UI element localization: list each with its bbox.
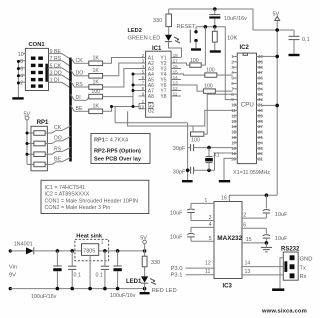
ground (reset switch) [191,48,201,50]
wire pin16 VCC to rail [221,195,277,201]
CON1 right pin stubs with labels [49,49,63,84]
wire R-BE to G-net [103,107,139,112]
wire pin13 Rx [242,269,283,275]
RS232 pin labels [300,256,313,280]
svg-text:100: 100 [206,68,215,74]
svg-text:19: 19 [139,105,145,110]
wires RP1 outputs to bus [52,125,71,164]
svg-text:11: 11 [173,92,178,97]
svg-text:RP1= 4.7KX4: RP1= 4.7KX4 [94,138,128,144]
connector RS232 3-pin header [281,247,300,281]
resistor RP1 element 1 [27,131,52,136]
node ties [132,73,135,76]
wire R100b to CPU pin5 [217,74,233,76]
wire pin14 Tx [242,261,283,267]
svg-text:9: 9 [142,92,145,97]
svg-text:14: 14 [173,75,179,80]
svg-text:6: 6 [142,75,145,80]
svg-text:15: 15 [173,70,179,75]
op-amp .. actually buffer IC1 74HCT541 [146,46,172,117]
svg-text:100uF/16v: 100uF/16v [31,294,57,300]
svg-text:5: 5 [142,70,145,75]
resistor network RP1 [31,120,49,171]
wire reset node to CPU RST pin9 [225,27,232,100]
svg-text:100: 100 [191,138,200,144]
node CON1 pin junction [17,82,20,85]
resistor RP1 element 3 [27,152,52,157]
svg-text:GREEN LED: GREEN LED [128,36,161,42]
capacitor 10uF (V-) [242,222,288,243]
IC1 G1 G2 enable labels [148,103,155,115]
wire R-DI to IC1 A4 [103,74,139,97]
wire Y2 to R100a [181,63,190,65]
svg-text:13: 13 [245,269,251,275]
resistor R100b 100 [205,68,217,78]
svg-text:5 CK: 5 CK [50,63,62,69]
svg-text:13: 13 [231,119,236,124]
driver IC3 MAX232 [214,202,243,290]
svg-text:www.sixca.com: www.sixca.com [261,308,307,314]
ground (RS232) [272,288,284,291]
svg-text:1K: 1K [93,104,100,110]
svg-text:2: 2 [243,212,246,218]
svg-text:4: 4 [209,222,212,228]
svg-text:1K: 1K [93,68,100,74]
svg-text:CPU: CPU [241,101,254,108]
svg-text:16: 16 [221,195,227,201]
svg-text:10: 10 [231,103,236,108]
svg-text:DO: DO [76,71,84,77]
wire harness bus (thick vertical) [69,58,72,162]
svg-text:3: 3 [209,215,212,221]
svg-text:1: 1 [101,239,104,245]
svg-text:CON1 = Male Shrouded Header 10: CON1 = Male Shrouded Header 10PIN [45,198,138,204]
regulator 7805 with heat sink [75,234,109,261]
svg-text:39: 39 [258,59,263,64]
ground (top right cap) [289,54,300,56]
svg-text:See PCB Over lay: See PCB Over lay [94,157,142,163]
wire pin2 [242,212,266,218]
svg-text:100: 100 [91,89,100,95]
LED LED2 green [165,35,180,43]
wire G-net long run to R100d [115,107,188,123]
capacitor 0.1 input [68,251,81,289]
wire feed to R100d [192,126,194,132]
capacitor 100uF/16v output [110,251,136,299]
svg-text:CK: CK [54,125,62,131]
resistor RP1 element 4 [27,162,52,167]
svg-text:100: 100 [204,84,213,90]
svg-text:330: 330 [153,18,162,24]
node pin40/rail [275,55,279,59]
svg-text:5V: 5V [273,12,280,18]
resistor RP1 element 2 [27,141,52,146]
ground (crystal caps) [182,180,193,182]
node pin31/rail [275,104,279,108]
svg-text:25: 25 [258,135,263,140]
svg-text:12: 12 [205,260,211,266]
svg-text:X1=11.059MHz: X1=11.059MHz [233,170,270,176]
wire 5V branch to reset/top [169,9,295,30]
svg-text:12: 12 [173,86,179,91]
svg-text:12: 12 [231,113,236,118]
node 5V/rail junction [275,28,279,32]
svg-text:18: 18 [173,53,179,58]
capacitor 10uF/16v (reset) [209,7,247,27]
capacitor 100uF/16v input [31,251,62,300]
wire diode to 7805 [35,250,82,252]
IC2 left pins 1-20 [231,54,237,162]
IC1 left pin stubs, numbers, A labels [139,53,155,110]
svg-text:IC1 = 74HCT541: IC1 = 74HCT541 [45,185,86,191]
svg-text:Heat sink: Heat sink [76,234,103,240]
resistor 10K (reset pulldown) [212,27,237,51]
svg-text:2: 2 [142,53,145,58]
svg-text:RS: RS [54,146,62,152]
wire G-net to pins 1,19 [138,104,140,109]
svg-text:20: 20 [231,157,236,162]
svg-text:15: 15 [231,130,236,135]
svg-text:RP2-RP5 (Option): RP2-RP5 (Option) [94,149,141,155]
svg-text:11: 11 [231,108,236,113]
svg-text:30pF: 30pF [173,169,186,175]
svg-text:33: 33 [258,92,263,97]
capacitor 10uF (pins 1-3) [170,198,214,221]
svg-text:3 DO: 3 DO [50,71,62,77]
svg-text:4: 4 [142,64,145,69]
svg-text:G2: G2 [148,109,155,115]
svg-text:36: 36 [258,76,263,81]
wire P3.0 to pin12 [171,260,215,272]
capacitor 0.1 output [96,251,110,289]
capacitor 30pF lower [173,167,194,176]
svg-text:MAX232: MAX232 [217,235,242,242]
svg-text:18: 18 [231,146,236,151]
resistor R-BE 1K [89,104,103,114]
wire bottom rail [10,288,144,290]
node pin15/cap [265,241,269,245]
svg-text:RS: RS [76,82,84,88]
capacitor 0.1 (top right decoupling) [289,30,310,54]
svg-text:1: 1 [142,99,145,104]
svg-text:CK: CK [76,58,84,64]
node bottom rail junctions [56,287,60,291]
svg-text:Rx: Rx [300,274,307,280]
svg-text:34: 34 [258,86,263,91]
svg-text:27: 27 [258,124,263,129]
svg-text:P3.1: P3.1 [171,273,183,279]
svg-text:24: 24 [258,140,263,145]
svg-text:RP1: RP1 [37,120,49,126]
svg-text:2: 2 [20,81,23,87]
svg-text:IC2 = AT89SXXXX: IC2 = AT89SXXXX [45,192,90,198]
svg-text:7805: 7805 [83,248,95,254]
wire 30pF common to ground [187,123,189,180]
microcontroller IC2 AT89S CPU [237,45,256,164]
capacitor 10uF (V+ to VCC) [263,195,288,218]
svg-text:330: 330 [151,260,160,266]
svg-text:BE: BE [76,106,83,112]
wire 5V rail vertical [276,30,278,195]
power 5V output [140,236,147,257]
node output caps [103,249,107,253]
wire CON1 ground bus [17,61,19,97]
svg-text:26: 26 [258,130,263,135]
wire input rail [10,250,26,252]
svg-text:15: 15 [246,237,252,243]
svg-text:0.1: 0.1 [96,272,104,278]
svg-text:10uF: 10uF [275,212,288,218]
svg-text:1 DI: 1 DI [50,78,60,84]
svg-text:10uF: 10uF [170,235,183,241]
resistor R-DO 1K [89,68,103,78]
resistor R-CK 1K [89,56,103,66]
svg-text:P3.0: P3.0 [171,266,183,272]
ground (CPU pin20) [219,180,230,182]
resistor R-RS 1K [89,79,103,89]
svg-text:14: 14 [245,261,251,267]
ground (MAX232) IEC style [261,243,272,252]
wire G-net vertical ties [132,74,134,107]
svg-text:Y8: Y8 [160,94,166,100]
svg-text:DO: DO [54,136,62,142]
connector CON1 10-pin shrouded header [25,42,48,91]
wire R-RS to IC1 A3 [103,69,139,88]
wires bus to series resistors with net labels [71,57,89,112]
CON1 polarizing key bar [45,64,48,82]
svg-text:16: 16 [231,135,236,140]
svg-text:5: 5 [209,236,212,242]
crystal X1 [205,148,220,171]
svg-text:LED1: LED1 [126,279,142,285]
svg-text:30pF: 30pF [173,146,186,152]
node CON1 pin junction [17,74,20,77]
svg-text:3: 3 [142,59,145,64]
wire R100d to CPU pin8 [204,94,233,134]
callout notes box [41,180,149,213]
svg-text:X1: X1 [213,152,220,158]
svg-text:8: 8 [142,86,145,91]
node input caps [56,249,60,253]
CON1 contact pads [31,57,43,88]
svg-text:11: 11 [205,269,210,275]
svg-text:38: 38 [258,65,263,70]
terminal Vin- [9,287,12,290]
svg-text:IC3: IC3 [223,284,233,290]
capacitor 10uF (pins 4-5) [170,222,214,242]
capacitor 30pF upper [173,144,194,152]
node reset net junctions [204,25,208,29]
wire CPU pin31 EA to rail [262,104,277,106]
resistor R100a 100 (reset drive) [190,58,201,68]
node CON1 pin junction [17,60,20,63]
svg-text:22: 22 [258,151,263,156]
svg-text:CON1: CON1 [29,42,46,48]
wire P3.1 to pin11 [171,269,215,279]
IC2 right pins 40-21 [257,54,264,162]
wire R-CK to IC1 A1 [103,58,139,64]
wire CPU pin40 VCC to rail [262,55,277,57]
IC1 right pin stubs, numbers, Y labels [160,53,181,100]
svg-text:BE: BE [54,157,61,163]
svg-text:29: 29 [258,113,263,118]
svg-text:6: 6 [243,222,246,228]
svg-text:16: 16 [173,64,179,69]
ground (CON1) [12,97,23,99]
wire output rail [99,250,145,252]
svg-text:IC2: IC2 [240,45,250,51]
node xtal top [207,146,211,150]
svg-text:8: 8 [20,59,23,65]
resistor 330 (red LED) [142,256,160,276]
wire CPU pin20 GND [224,158,232,180]
svg-text:10uF/16v: 10uF/16v [224,16,247,22]
svg-text:100: 100 [190,58,199,64]
resistor R-DI 100 [89,89,103,99]
svg-text:28: 28 [258,119,263,124]
wire R100a to reset node [201,27,205,65]
node CON1 pin junction [17,67,20,70]
RS232 contact pads [290,255,295,278]
svg-text:GND: GND [300,256,313,262]
terminal Vin+ [9,249,12,252]
diode 1N4001 [14,242,34,255]
node pin16/cap junction [265,193,269,197]
svg-text:32: 32 [258,97,263,102]
svg-text:37: 37 [258,70,263,75]
svg-text:1K: 1K [93,56,100,62]
svg-text:0.1: 0.1 [74,272,82,278]
ground (10K) [210,50,221,52]
svg-text:35: 35 [258,81,263,86]
svg-text:30: 30 [258,108,263,113]
node xtal bottom [207,169,211,173]
svg-text:10: 10 [18,52,24,58]
svg-text:13: 13 [173,81,179,86]
RS232 key bar [284,261,287,272]
svg-text:19: 19 [231,151,236,156]
svg-text:14: 14 [231,124,236,129]
svg-text:LED2: LED2 [128,28,142,34]
svg-text:100uF/16v: 100uF/16v [110,293,136,299]
svg-text:Tx: Tx [300,266,307,272]
svg-text:0.1: 0.1 [302,37,310,43]
svg-text:7: 7 [142,81,145,86]
svg-text:RED LED: RED LED [152,288,177,294]
svg-text:A8: A8 [148,94,154,100]
node RP1 rail junctions [26,132,29,135]
svg-text:10uF: 10uF [170,211,183,217]
node 30pF common [186,169,190,173]
wire pin15 GND [242,237,266,243]
svg-text:17: 17 [231,140,236,145]
svg-text:CON2 = Male Header 3 Pin: CON2 = Male Header 3 Pin [45,205,111,211]
svg-text:1N4001: 1N4001 [14,242,33,248]
svg-text:DI: DI [76,95,81,101]
svg-text:Vin: Vin [9,264,17,270]
wire R100c to CPU pin8 [215,90,232,92]
wire LED2 to IC1 Y1 [169,42,182,58]
wire CON1 fan to bus [62,54,71,88]
wire Y6 to R100c [181,85,203,91]
switch RESET push button [177,24,198,48]
svg-text:9V: 9V [9,273,16,279]
svg-text:21: 21 [258,157,263,162]
wire reset node [196,26,225,28]
wire R-DO to IC1 A2 [103,63,139,76]
power 5V supply symbol (top right) [273,12,280,31]
CON1 left pin stubs and numbers [18,52,26,86]
svg-text:7 RS: 7 RS [50,56,62,62]
svg-text:9 BE: 9 BE [50,49,62,55]
wire CPU pin19 XTAL1 [194,153,233,170]
wire 7805 ground pin [89,255,91,288]
wire CPU pin18 XTAL2 [194,147,233,149]
svg-text:1K: 1K [93,79,100,85]
wire aux run to CPU pin11 [128,110,233,126]
wire Y4 to R100b [181,74,205,75]
svg-text:RESET: RESET [177,24,196,30]
svg-text:23: 23 [258,146,263,151]
svg-text:4: 4 [20,74,23,80]
wire RS232 GND to ground [280,258,283,289]
callout RP options box [91,134,150,164]
resistor R100c 100 [203,84,215,94]
resistor R100d 100 [191,132,204,144]
svg-text:10uF: 10uF [275,236,288,242]
resistor 330 (green LED) [153,9,172,35]
svg-text:6: 6 [20,66,23,72]
svg-text:10K: 10K [227,35,237,41]
power 5V (RP1 pullups) [24,111,31,164]
LED LED1 red [126,276,177,294]
ground (LED1) [140,292,150,294]
svg-text:17: 17 [173,59,179,64]
svg-text:1: 1 [204,198,207,204]
